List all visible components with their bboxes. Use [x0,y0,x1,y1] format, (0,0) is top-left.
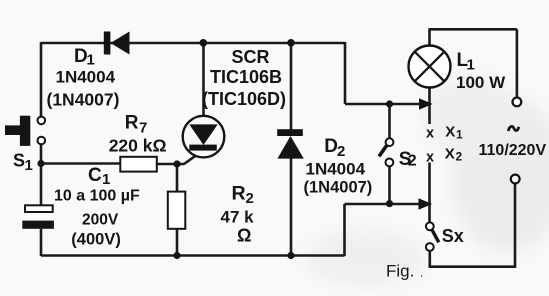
svg-text:1: 1 [25,157,33,174]
svg-text:7: 7 [139,120,147,137]
svg-text:10 a 100 µF: 10 a 100 µF [54,188,140,205]
svg-text:. .: . . [410,266,423,280]
svg-text:(1N4007): (1N4007) [304,179,373,197]
svg-text:TIC106B: TIC106B [210,67,282,87]
svg-text:1: 1 [87,52,95,69]
svg-text:2: 2 [408,153,417,170]
svg-text:C: C [88,165,102,186]
svg-text:(TIC106D): (TIC106D) [202,89,286,109]
svg-text:Ω: Ω [237,226,251,246]
svg-text:R: R [232,183,246,205]
svg-text:2: 2 [246,190,254,207]
svg-text:220 kΩ: 220 kΩ [109,136,167,156]
svg-text:SCR: SCR [232,47,270,67]
svg-text:1: 1 [467,57,475,74]
svg-text:(400V): (400V) [71,231,121,249]
svg-text:47 k: 47 k [221,208,255,227]
svg-text:x: x [426,125,434,141]
svg-text:1: 1 [102,171,110,188]
svg-text:(1N4007): (1N4007) [47,90,120,110]
svg-text:1N4004: 1N4004 [306,160,366,179]
svg-text:D: D [324,136,338,157]
svg-text:100 W: 100 W [456,73,506,92]
svg-text:1: 1 [456,128,463,142]
svg-text:2: 2 [337,143,345,160]
svg-text:110/220V: 110/220V [479,142,547,159]
svg-text:Sx: Sx [442,226,464,246]
svg-text:200V: 200V [82,212,119,229]
svg-text:x: x [426,150,434,166]
svg-text:S: S [13,151,25,171]
svg-text:X: X [445,146,455,163]
svg-text:1N4004: 1N4004 [56,68,116,87]
svg-text:2: 2 [456,150,463,164]
svg-text:R: R [125,113,139,134]
svg-text:X: X [445,123,455,140]
